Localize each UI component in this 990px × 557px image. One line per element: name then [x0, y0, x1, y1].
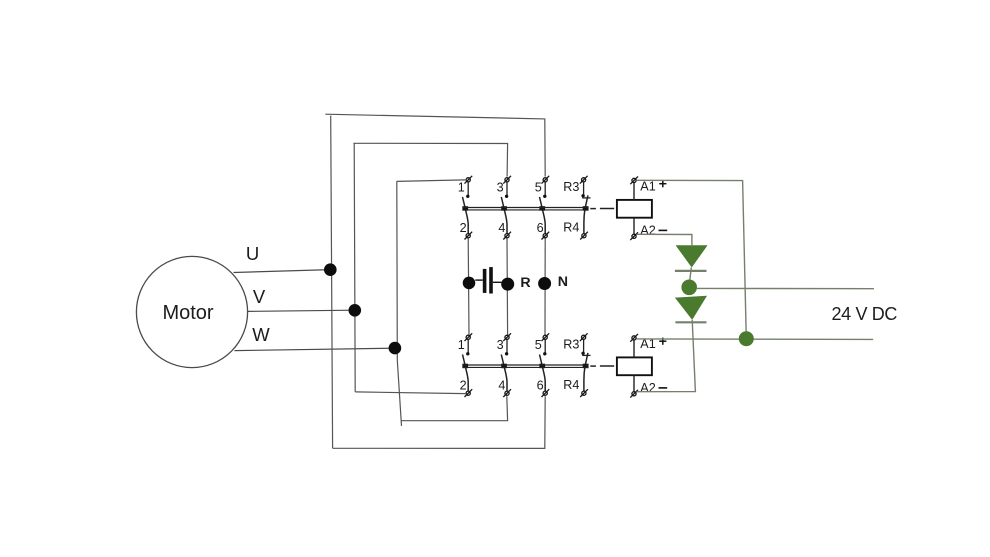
motor M1	[136, 256, 247, 367]
contactor K1 contact R3-R4 moving arm	[584, 195, 588, 233]
svg-text:2: 2	[460, 379, 467, 393]
svg-text:6: 6	[537, 221, 544, 235]
node W junction	[389, 342, 402, 355]
contactor K2 contact 1-2 linkage crossing	[462, 364, 468, 369]
svg-text:1: 1	[458, 338, 465, 352]
contactor K2 contact 5-6 moving arm	[540, 355, 546, 392]
capacitor C1 left link	[475, 279, 483, 281]
contactor K1 contact 1-2 fixed point	[466, 195, 469, 198]
svg-text:A2: A2	[640, 381, 655, 395]
wire K1 pin4 to K2 pin3	[506, 238, 509, 335]
contactor K1 contact 3-4 moving arm	[501, 197, 507, 234]
contactor K1 plus sign	[659, 180, 666, 187]
contactor K1 contact 1-2 top terminal	[465, 176, 473, 184]
contactor K2 contact 5-6 fixed lead	[544, 340, 546, 353]
node +24V junction	[739, 331, 754, 346]
capacitor C1 right link	[493, 281, 502, 283]
contactor K2 contact 1-2 fixed point	[466, 352, 469, 355]
contactor K2 contact R3-R4 linkage crossing	[583, 364, 589, 369]
svg-text:R3: R3	[563, 180, 579, 194]
wire +24V rail bottom	[637, 338, 874, 341]
contactor K2 contact R3-R4 fixed point	[581, 352, 584, 355]
contactor K1 contact R3-R4 bottom terminal	[580, 232, 588, 240]
contactor K1 contact R3-R4 fixed lead	[583, 182, 585, 195]
contactor K1 contact R3-R4 fixed point	[581, 194, 584, 197]
node R tap	[501, 278, 514, 291]
contactor K2 contact 1-2 fixed lead	[467, 340, 469, 353]
wire D1 to mid node	[690, 268, 692, 281]
svg-text:4: 4	[498, 221, 505, 235]
node U junction	[324, 263, 337, 276]
contactor K1 contact 5-6 moving arm	[540, 197, 546, 234]
svg-text:Motor: Motor	[162, 302, 213, 324]
wire W motor to node	[235, 348, 395, 350]
wire W bottom feed to K2 pin 4	[402, 396, 508, 421]
svg-text:4: 4	[498, 379, 505, 393]
svg-text:N: N	[558, 274, 568, 290]
svg-text:5: 5	[535, 338, 542, 352]
contactor K1 linkage dash to coil	[590, 208, 614, 210]
svg-text:24 V DC: 24 V DC	[832, 304, 898, 324]
contactor K1 mechanical linkage bar	[462, 208, 588, 210]
contactor K2 contact R3-R4 moving arm	[584, 353, 588, 391]
wire D2 to K2 A2	[637, 320, 696, 392]
contactor K1 contact 1-2 fixed lead	[467, 182, 469, 195]
contactor K2 contact R3-R4 top terminal	[580, 333, 588, 341]
contactor K2 coil A2 terminal	[630, 390, 638, 398]
wire V riser vertical	[354, 143, 355, 392]
contactor K1 contact 5-6 bottom terminal	[542, 232, 550, 240]
wire W top feed to K1 pin 1	[397, 180, 465, 182]
contactor K1 contact 5-6 fixed lead	[544, 182, 546, 195]
svg-text:R4: R4	[563, 378, 579, 392]
svg-text:1: 1	[458, 181, 465, 195]
svg-text:V: V	[253, 286, 266, 307]
svg-text:A2: A2	[640, 224, 655, 238]
contactor K2 contact 3-4 fixed point	[505, 352, 508, 355]
contactor K1 contact 5-6 top terminal	[542, 176, 550, 184]
contactor K1 contact 3-4 bottom terminal	[503, 232, 511, 240]
svg-text:U: U	[246, 243, 259, 264]
contactor K1 contact 3-4 fixed point	[505, 195, 508, 198]
svg-text:R: R	[520, 275, 530, 291]
capacitor C1 plate 2	[489, 267, 493, 293]
contactor K1 coil A1 lead	[633, 182, 635, 200]
svg-text:2: 2	[460, 221, 467, 235]
contactor K2 coil A1 lead	[633, 340, 635, 358]
wire U riser vertical	[331, 116, 333, 449]
wire U top feed to K1 pin 5	[325, 114, 545, 176]
contactor K2 contact 5-6 fixed point	[543, 352, 546, 355]
contactor K2 contact 1-2 moving arm	[463, 355, 469, 392]
svg-text:R3: R3	[563, 338, 579, 352]
wire U motor to node	[234, 270, 331, 273]
contactor K2 minus sign	[659, 387, 668, 389]
svg-text:6: 6	[537, 379, 544, 393]
contactor K2 contact 1-2 bottom terminal	[465, 389, 473, 397]
contactor K1 contact 5-6 fixed point	[543, 195, 546, 198]
contactor K2 contact 3-4 moving arm	[501, 355, 507, 392]
contactor K2 contact 1-2 top terminal	[465, 333, 473, 341]
wire W riser vertical	[397, 181, 402, 426]
contactor K1 contact 3-4 linkage crossing	[501, 206, 507, 211]
svg-text:W: W	[252, 324, 270, 345]
node diode midpoint	[681, 280, 697, 296]
node phase 1 tap	[463, 277, 476, 290]
contactor K2 plus sign	[659, 338, 666, 345]
wire V motor to node	[248, 310, 355, 311]
svg-text:3: 3	[497, 181, 504, 195]
contactor K2 contact R3-R4 seat bar	[582, 354, 590, 356]
wire K1 A2 to diode D1	[636, 234, 692, 245]
contactor K2 coil A2 lead	[633, 375, 635, 391]
contactor K1 contact R3-R4 seat bar	[582, 197, 590, 199]
contactor K2 contact 3-4 fixed lead	[506, 340, 508, 353]
contactor K2 coil A1 terminal	[630, 334, 638, 342]
contactor K2 contact R3-R4 fixed lead	[583, 340, 585, 353]
contactor K1 coil A2 lead	[633, 218, 635, 234]
contactor K2 contact 3-4 linkage crossing	[501, 364, 507, 369]
svg-text:A1: A1	[640, 179, 655, 193]
svg-text:5: 5	[535, 181, 542, 195]
contactor K1 contact 1-2 moving arm	[463, 197, 469, 234]
contactor K2 contact 3-4 top terminal	[503, 333, 511, 341]
contactor K1 contact 1-2 linkage crossing	[462, 206, 468, 211]
contactor K2 mechanical linkage bar	[462, 365, 588, 367]
wire V top feed to K1 pin 3	[353, 143, 507, 176]
node N tap	[538, 277, 551, 290]
node V junction	[349, 304, 362, 317]
diode D1	[675, 245, 708, 271]
contactor K1 contact R3-R4 top terminal	[580, 176, 588, 184]
contactor K1 contact 3-4 top terminal	[503, 176, 511, 184]
capacitor C1 plate 1	[483, 269, 487, 293]
contactor K1 contact 1-2 bottom terminal	[465, 232, 473, 240]
contactor K2 contact 5-6 top terminal	[542, 333, 550, 341]
contactor K1 minus sign	[659, 229, 668, 231]
svg-text:3: 3	[497, 338, 504, 352]
wire V bottom feed to K2 pin 2	[355, 392, 465, 394]
contactor K1 coil body	[617, 200, 652, 218]
contactor K2 contact 3-4 bottom terminal	[503, 389, 511, 397]
wire U bottom feed to K2 pin 6	[333, 396, 546, 448]
svg-text:R4: R4	[563, 221, 579, 235]
contactor K2 contact 5-6 linkage crossing	[539, 364, 545, 369]
contactor K1 contact 3-4 fixed lead	[506, 182, 508, 195]
contactor K1 coil A1 terminal	[630, 176, 638, 184]
diode D2	[675, 296, 707, 323]
contactor K1 contact 5-6 linkage crossing	[539, 206, 545, 211]
contactor K1 contact R3-R4 linkage crossing	[583, 206, 589, 211]
wire mid rail	[697, 287, 874, 289]
contactor K1 coil A2 terminal	[630, 232, 638, 240]
contactor K2 coil body	[617, 357, 652, 375]
wire K1 A1 to +24V rail	[636, 180, 746, 338]
contactor K2 linkage dash to coil	[590, 365, 614, 367]
wire K1 pin6 to K2 pin5	[544, 238, 546, 335]
contactor K2 contact R3-R4 bottom terminal	[580, 389, 588, 397]
wire K1 pin2 to K2 pin1	[467, 238, 470, 335]
contactor K2 contact 5-6 bottom terminal	[542, 389, 550, 397]
